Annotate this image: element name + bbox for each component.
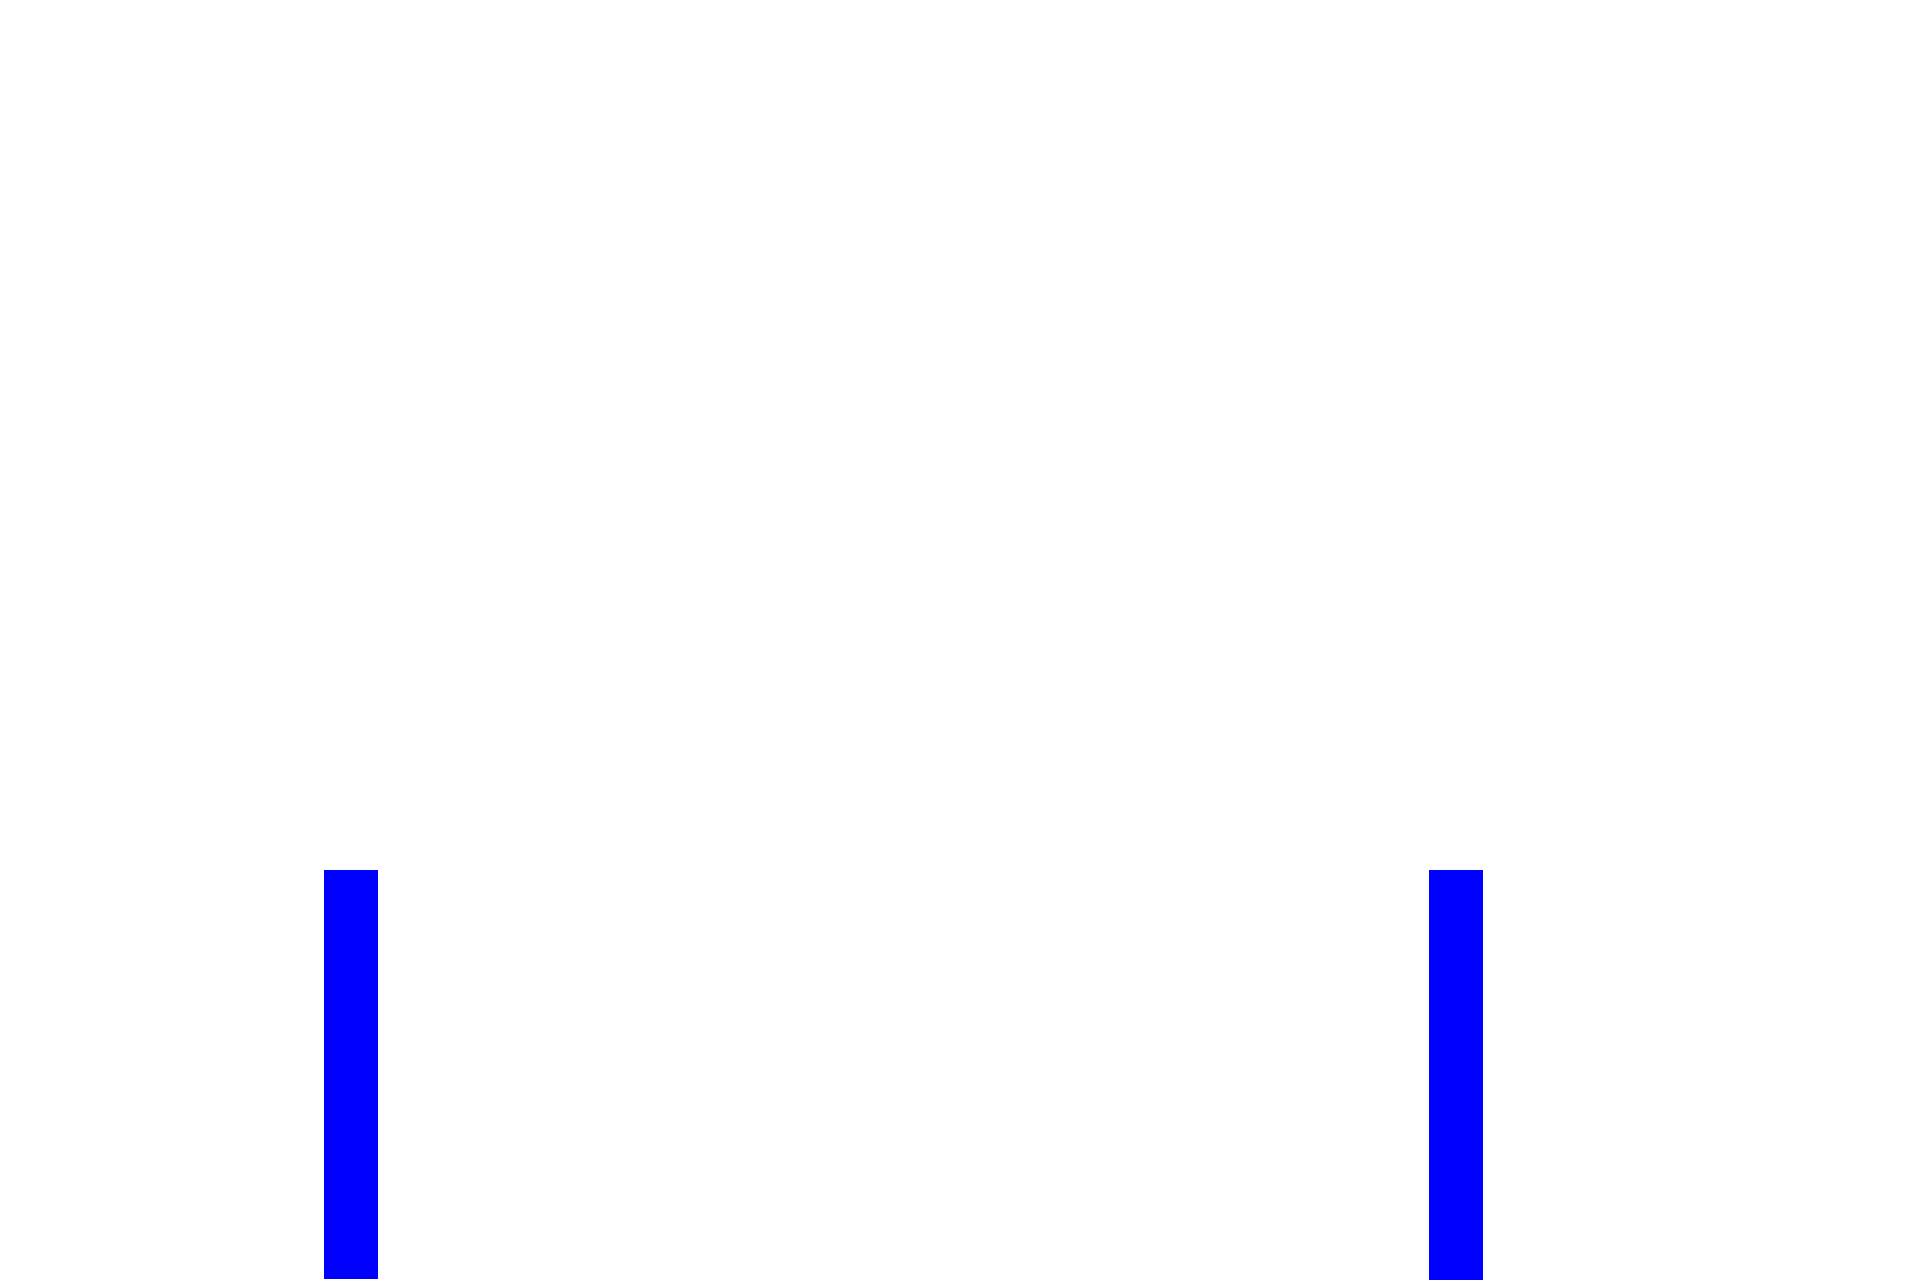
bar left: [324, 870, 378, 1279]
bar right: [1429, 870, 1483, 1280]
